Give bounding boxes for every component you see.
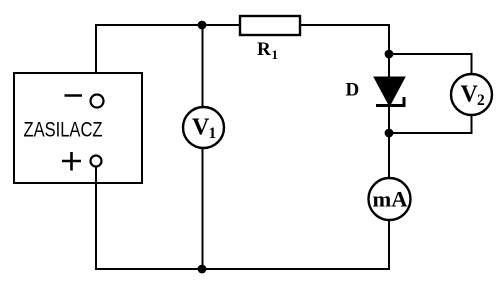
wire left vertical from top wire to minus terminal [95, 24, 97, 95]
wire top horizontal (supply minus to right branch) [96, 24, 389, 26]
voltmeter V2 circle [451, 74, 492, 115]
plus terminal circle [91, 156, 102, 167]
resistor R1 body [240, 16, 300, 35]
node junction bottom (V1 tap) [198, 265, 207, 274]
voltmeter V1 circle [183, 107, 224, 148]
svg-text:2: 2 [477, 92, 485, 109]
wire mA to bottom wire [388, 219, 390, 270]
wire V2 branch top horizontal [389, 53, 473, 55]
svg-text:ZASILACZ: ZASILACZ [24, 118, 103, 142]
wire V2 branch right vertical lower [471, 114, 473, 134]
plus sign [62, 152, 81, 171]
svg-text:1: 1 [272, 47, 279, 62]
node junction top (V1 tap) [198, 21, 207, 30]
wire bottom horizontal [95, 268, 389, 270]
svg-text:mA: mA [373, 187, 409, 212]
svg-text:R: R [257, 39, 271, 60]
wire V2 branch right vertical upper [471, 53, 473, 75]
node junction diode anode / V2 tap top [385, 50, 394, 59]
node junction V2 tap bottom [385, 129, 394, 138]
minus terminal circle [91, 95, 104, 108]
svg-text:1: 1 [209, 125, 217, 142]
svg-text:V: V [192, 115, 210, 141]
milliammeter mA circle [369, 178, 411, 220]
wire from plus terminal down [95, 167, 97, 271]
wire V1 branch upper segment [202, 25, 204, 107]
wire V2 branch bottom horizontal [389, 132, 473, 134]
power supply box ZASILACZ [14, 73, 142, 183]
wire V1 branch lower segment [202, 148, 204, 269]
diode D triangle (anode) [374, 77, 405, 106]
diode D cathode bar with hook [376, 97, 404, 106]
svg-text:D: D [346, 80, 360, 101]
svg-text:V: V [461, 82, 479, 108]
minus sign [65, 94, 83, 97]
wire diode cathode to mA [388, 106, 390, 179]
wire right vertical upper (to diode) [388, 24, 390, 80]
